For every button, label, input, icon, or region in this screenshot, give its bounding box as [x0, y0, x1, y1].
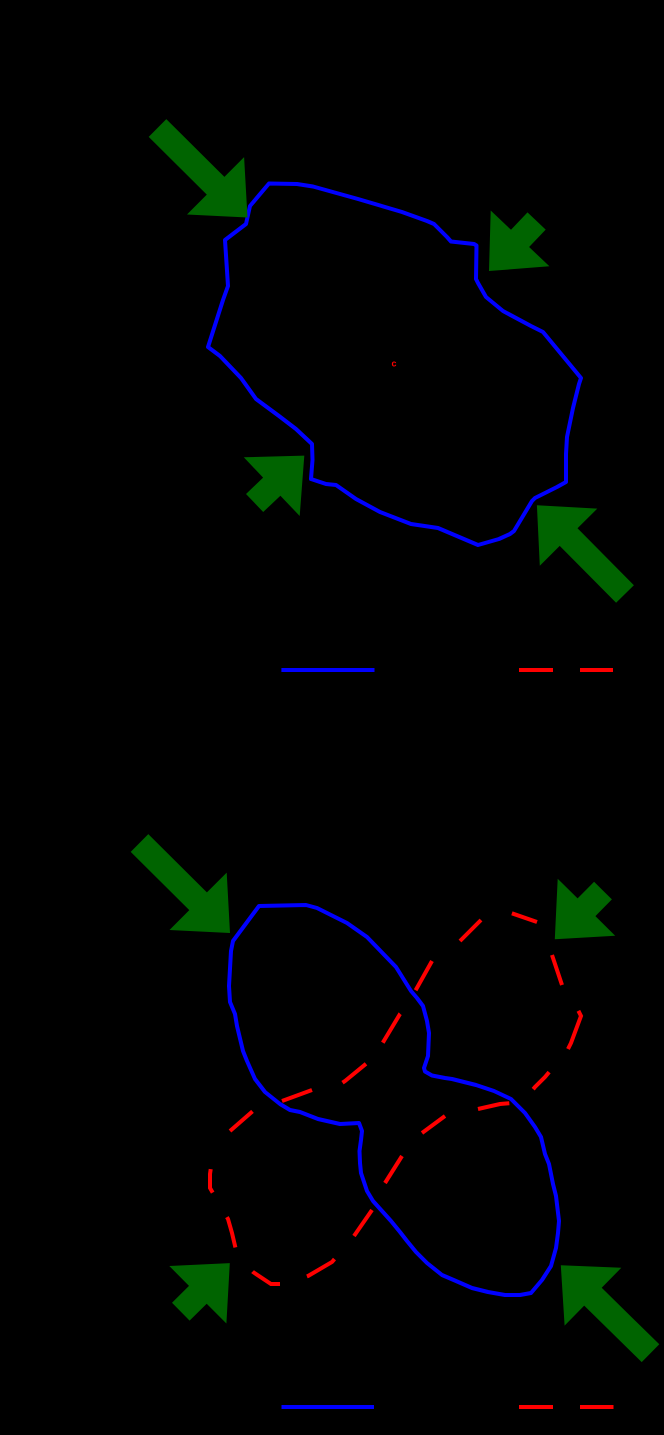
- svg-text:c: c: [392, 359, 397, 369]
- bottom panel: green arrow upper-right: [555, 879, 615, 940]
- top panel: green arrow upper-left: [149, 119, 248, 217]
- top panel: green arrow lower-right: [537, 505, 634, 603]
- bottom legend: blue solid sample: [282, 1405, 375, 1409]
- bottom panel: red dashed peanut contour (under blue): [460, 920, 481, 941]
- bottom panel: blue solid peanut contour: [229, 905, 559, 1295]
- bottom panel: green arrow lower-left: [169, 1263, 230, 1323]
- bottom legend: red dashed sample: [519, 1405, 614, 1409]
- top panel: green arrow upper-right: [489, 211, 549, 272]
- top legend: blue solid sample: [281, 668, 374, 672]
- top panel: green arrow lower-left: [244, 456, 304, 516]
- bottom panel: green arrow upper-left: [131, 834, 230, 933]
- top panel: blue solid closed contour: [208, 184, 581, 546]
- bottom panel: green arrow lower-right: [561, 1265, 660, 1362]
- top legend: red dashed sample: [519, 668, 613, 672]
